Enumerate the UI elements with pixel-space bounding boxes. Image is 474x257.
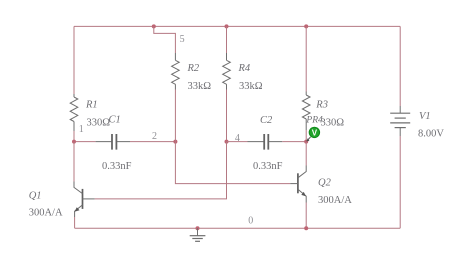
- resistor R4: [223, 53, 231, 90]
- label R3: [315, 100, 328, 111]
- battery V1: [390, 106, 410, 136]
- svg-text:330Ω: 330Ω: [87, 118, 111, 129]
- label R3 value 330ohm: [321, 118, 345, 129]
- wire top rail to R3: [305, 26, 307, 91]
- svg-text:Q2: Q2: [318, 177, 332, 188]
- junction top rail at R3: [304, 24, 308, 28]
- junction node 1: [72, 140, 76, 144]
- svg-text:8.00V: 8.00V: [418, 129, 444, 140]
- wire top rail VCC: [74, 25, 400, 27]
- svg-text:R2: R2: [187, 63, 200, 74]
- label R1: [85, 100, 98, 111]
- wire node 4 to C2: [227, 141, 248, 143]
- svg-text:300A/A: 300A/A: [29, 208, 63, 219]
- junction node 2: [173, 140, 177, 144]
- label R4: [238, 63, 251, 74]
- wire R3 bottom to node PR4: [305, 130, 307, 142]
- label probe ref PR4: [305, 116, 323, 126]
- junction node 4: [225, 140, 229, 144]
- svg-text:5: 5: [180, 34, 185, 45]
- svg-text:R1: R1: [85, 100, 98, 111]
- svg-text:1: 1: [79, 124, 84, 135]
- wire bottom rail node 0: [75, 227, 401, 229]
- wire node 1 to Q1 collector: [73, 142, 75, 182]
- svg-text:R3: R3: [315, 100, 328, 111]
- svg-text:33kΩ: 33kΩ: [239, 81, 263, 92]
- svg-text:V1: V1: [419, 111, 431, 122]
- wire R2 bottom to node 2: [174, 90, 176, 142]
- svg-text:2: 2: [152, 131, 157, 142]
- transistor Q1: [74, 182, 95, 218]
- label V1: [419, 111, 431, 122]
- resistor R2: [172, 53, 180, 90]
- junction ground tap: [196, 226, 200, 230]
- wire top rail down to V1: [399, 26, 401, 106]
- wire R4 bottom to node 4: [226, 90, 228, 142]
- capacitor C2: [248, 134, 283, 150]
- label V1 value 8.00V: [418, 129, 444, 140]
- resistor R1: [70, 94, 78, 131]
- label C1: [109, 115, 121, 126]
- svg-text:4: 4: [235, 133, 240, 144]
- junction node PR4 (Q2 collector): [304, 140, 308, 144]
- label node 4: [235, 133, 240, 144]
- voltage probe PR4: [306, 127, 319, 141]
- junction top rail at R4: [225, 24, 229, 28]
- wire R1 bottom to node 1: [73, 131, 75, 142]
- junction top rail to node 5 jog: [152, 24, 156, 28]
- label Q2 value 300A/A: [318, 195, 352, 206]
- wire Q1 emitter down to node 0: [74, 217, 76, 228]
- ground: [190, 228, 206, 241]
- label R4 value 33kohm: [239, 81, 263, 92]
- svg-text:V: V: [312, 129, 318, 138]
- svg-text:0.33nF: 0.33nF: [253, 161, 283, 172]
- label C2: [260, 115, 273, 126]
- svg-text:330Ω: 330Ω: [321, 118, 345, 129]
- svg-text:0: 0: [248, 216, 253, 227]
- capacitor C1: [96, 134, 130, 150]
- svg-text:300A/A: 300A/A: [318, 195, 352, 206]
- wire node PR4 to Q2 collector: [305, 142, 307, 166]
- label node 1: [79, 124, 84, 135]
- label C1 value 0.33nF: [102, 161, 132, 172]
- wire C2 right to node PR4: [282, 141, 306, 143]
- svg-text:33kΩ: 33kΩ: [188, 81, 212, 92]
- wire left drop from top rail to R1: [73, 26, 75, 94]
- wire V1 bottom to node 0: [399, 136, 401, 228]
- junction Q2 emitter at node 0: [304, 226, 308, 230]
- label Q1: [29, 191, 42, 202]
- label R2: [187, 63, 200, 74]
- label C2 value 0.33nF: [253, 161, 283, 172]
- label R2 value 33kohm: [188, 81, 212, 92]
- svg-text:R4: R4: [238, 63, 251, 74]
- svg-text:C2: C2: [260, 115, 273, 126]
- wire node 1 to C1: [76, 141, 96, 143]
- label R1 value 330ohm: [87, 118, 111, 129]
- svg-text:0.33nF: 0.33nF: [102, 161, 132, 172]
- label node 0: [248, 216, 253, 227]
- label Q2: [318, 177, 332, 188]
- transistor Q2: [290, 166, 306, 203]
- svg-text:Q1: Q1: [29, 191, 42, 202]
- label node 5: [180, 34, 185, 45]
- wire node 2 down and right to Q2 base: [175, 142, 290, 184]
- label Q1 value 300A/A: [29, 208, 63, 219]
- wire node 4 down and left to Q1 base: [95, 142, 227, 199]
- wire Q2 emitter down to node 0: [305, 203, 307, 229]
- wire top rail to R4: [226, 26, 228, 53]
- label node 2: [152, 131, 157, 142]
- resistor R3: [302, 92, 310, 131]
- wire node 5 jog to R2: [154, 26, 176, 53]
- svg-text:C1: C1: [109, 115, 121, 126]
- wire C1 right to node 2: [130, 141, 175, 143]
